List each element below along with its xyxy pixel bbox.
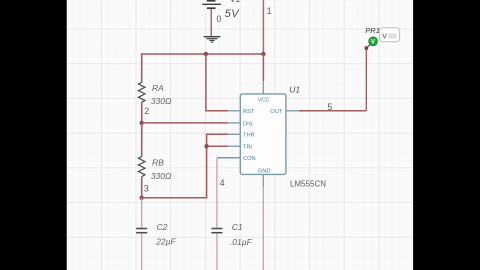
wire net2 horizontal to DIS (142, 122, 228, 124)
wire net1 horizontal (142, 54, 264, 82)
wire RB to node 3 (141, 177, 143, 198)
wire net1 vertical from top to VCC rail (262, 0, 264, 54)
pin stub OUT (286, 110, 299, 112)
voltage source V1 battery plates (202, 1, 221, 9)
svg-text:RA: RA (152, 83, 164, 93)
svg-text:330Ω: 330Ω (151, 96, 172, 106)
pin stub DIS (228, 122, 241, 124)
svg-text:330Ω: 330Ω (151, 171, 172, 181)
resistor RB (138, 157, 145, 177)
junction net1/RST (204, 52, 208, 56)
wire V1 negative to ground (210, 9, 212, 36)
pin stub TRI (228, 145, 241, 147)
svg-text:4: 4 (220, 178, 225, 188)
svg-text:22µF: 22µF (155, 237, 176, 247)
probe terminal square (365, 46, 369, 50)
IC U1 LM555CN body (240, 94, 286, 174)
wire net3 horizontal and vertical to THR (142, 134, 228, 198)
probe badge icon (389, 34, 396, 38)
pin stub RST (228, 110, 241, 112)
capacitor C2 (136, 229, 147, 233)
wire node3 to C2 (141, 198, 143, 228)
wire node2 to RB (141, 123, 143, 157)
junction net1/VCC (261, 52, 265, 56)
wire net5 vertical to probe (365, 48, 367, 111)
wire RA to node 2 (141, 102, 143, 123)
svg-text:CON: CON (243, 156, 256, 162)
pin stub CON (228, 157, 241, 159)
wire TRI stub (207, 145, 228, 147)
svg-text:TRI: TRI (243, 145, 253, 151)
svg-text:RST: RST (243, 109, 255, 115)
svg-text:V1: V1 (230, 0, 241, 4)
svg-text:OUT: OUT (270, 109, 283, 115)
svg-text:2: 2 (144, 106, 149, 116)
svg-text:0: 0 (216, 14, 221, 24)
wire VCC from net1 (262, 54, 264, 81)
svg-text:DIS: DIS (243, 121, 253, 127)
junction TRI (204, 144, 208, 148)
svg-text:V: V (382, 34, 387, 41)
svg-text:RB: RB (152, 158, 164, 168)
probe lead diagonal (367, 44, 371, 47)
svg-text:U1: U1 (289, 85, 300, 95)
wire C1 to bottom edge (216, 233, 218, 270)
capacitor C1 (211, 229, 222, 233)
svg-text:3: 3 (144, 184, 149, 194)
junction node 2 (140, 121, 144, 125)
svg-text:GND: GND (258, 168, 271, 174)
pin stub THR (228, 133, 241, 135)
wire RST from net1 (206, 54, 228, 111)
ground symbol (204, 37, 221, 43)
wire CON to C1 (217, 157, 240, 159)
svg-text:LM555CN: LM555CN (290, 180, 326, 189)
wire C2 to bottom edge (141, 233, 143, 270)
pin stub GND (262, 174, 264, 187)
wire GND pin to bottom edge (262, 188, 264, 270)
svg-text:PR1: PR1 (365, 26, 380, 35)
svg-text:VCC: VCC (258, 97, 270, 103)
probe PR1 green circle (369, 37, 378, 46)
junction node 3 (140, 196, 144, 200)
wire OUT net5 horizontal (299, 110, 366, 112)
svg-text:5V: 5V (225, 8, 241, 20)
probe badge (380, 28, 400, 42)
svg-text:5: 5 (327, 102, 332, 112)
resistor RA (138, 82, 145, 102)
svg-text:THR: THR (243, 133, 255, 139)
svg-text:.01µF: .01µF (230, 237, 253, 247)
svg-text:C1: C1 (232, 222, 243, 232)
pin stub VCC (262, 81, 264, 94)
svg-text:C2: C2 (157, 222, 168, 232)
svg-text:1: 1 (267, 6, 272, 16)
